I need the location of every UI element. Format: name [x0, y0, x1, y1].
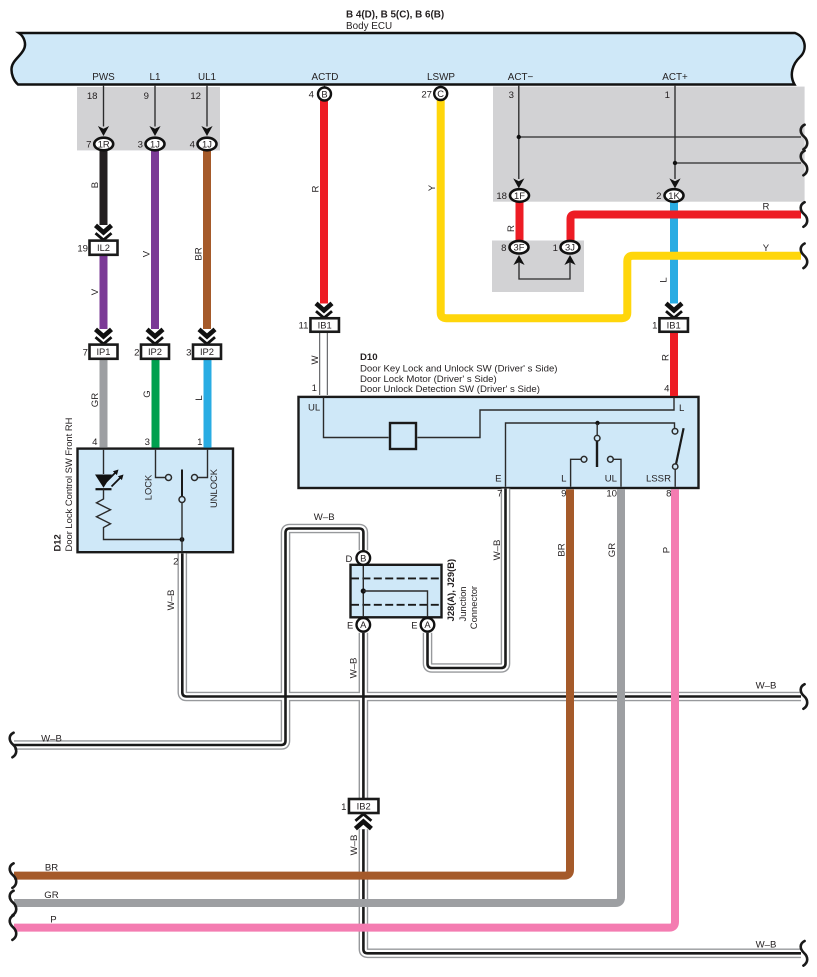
- svg-text:IP1: IP1: [96, 346, 110, 357]
- svg-text:W: W: [310, 355, 321, 365]
- svg-text:1: 1: [652, 321, 657, 332]
- svg-text:D10: D10: [360, 352, 378, 363]
- svg-text:1F: 1F: [514, 190, 525, 201]
- svg-text:9: 9: [561, 489, 566, 500]
- svg-text:1: 1: [312, 383, 317, 394]
- svg-text:GR: GR: [607, 543, 618, 557]
- svg-text:LOCK: LOCK: [143, 474, 154, 500]
- svg-text:1: 1: [197, 437, 202, 448]
- svg-text:3: 3: [145, 437, 150, 448]
- svg-text:2: 2: [656, 191, 661, 202]
- svg-text:2: 2: [134, 347, 139, 358]
- svg-text:Junction: Junction: [457, 586, 468, 621]
- svg-text:3F: 3F: [514, 242, 525, 253]
- svg-text:Door Unlock Detection SW (Driv: Door Unlock Detection SW (Driver' s Side…: [360, 384, 540, 395]
- svg-text:4: 4: [92, 437, 98, 448]
- svg-text:BR: BR: [45, 863, 58, 874]
- svg-text:Door Lock Control SW Front RH: Door Lock Control SW Front RH: [63, 418, 74, 552]
- svg-text:W–B: W–B: [41, 734, 62, 745]
- svg-text:BR: BR: [556, 543, 567, 556]
- svg-text:8: 8: [501, 243, 506, 254]
- svg-text:R: R: [506, 225, 517, 232]
- svg-text:4: 4: [309, 90, 315, 101]
- svg-text:1: 1: [553, 243, 558, 254]
- svg-text:P: P: [50, 915, 56, 926]
- svg-text:ACT+: ACT+: [662, 72, 688, 83]
- svg-text:ACTD: ACTD: [312, 72, 339, 83]
- svg-text:W–B: W–B: [756, 940, 777, 951]
- svg-text:3: 3: [186, 347, 191, 358]
- svg-text:UL: UL: [605, 474, 618, 485]
- svg-text:ACT−: ACT−: [508, 72, 534, 83]
- svg-text:Body ECU: Body ECU: [346, 21, 392, 32]
- svg-text:B: B: [321, 88, 327, 99]
- svg-text:B: B: [90, 182, 101, 188]
- svg-text:G: G: [142, 390, 153, 397]
- svg-text:9: 9: [144, 91, 149, 102]
- svg-text:IB2: IB2: [357, 800, 371, 811]
- svg-text:3J: 3J: [565, 242, 575, 253]
- svg-text:IB1: IB1: [667, 319, 681, 330]
- svg-text:11: 11: [299, 321, 309, 332]
- svg-text:3: 3: [509, 90, 514, 101]
- svg-text:D12: D12: [52, 534, 63, 551]
- svg-text:UNLOCK: UNLOCK: [208, 468, 219, 508]
- svg-text:L: L: [659, 277, 670, 283]
- svg-text:LSWP: LSWP: [427, 72, 455, 83]
- svg-text:L: L: [194, 395, 205, 401]
- svg-text:IP2: IP2: [200, 346, 214, 357]
- svg-text:W–B: W–B: [348, 658, 359, 679]
- svg-text:GR: GR: [90, 393, 101, 407]
- svg-text:1: 1: [665, 90, 670, 101]
- svg-text:A: A: [424, 619, 431, 630]
- svg-text:UL1: UL1: [198, 72, 217, 83]
- svg-text:W–B: W–B: [166, 590, 177, 611]
- svg-text:1: 1: [341, 802, 346, 813]
- svg-text:8: 8: [666, 489, 671, 500]
- svg-text:W–B: W–B: [756, 681, 777, 692]
- svg-text:LSSR: LSSR: [646, 474, 671, 485]
- svg-text:3: 3: [138, 140, 143, 151]
- svg-text:P: P: [661, 547, 672, 553]
- svg-text:7: 7: [86, 140, 91, 151]
- svg-text:Y: Y: [427, 184, 438, 191]
- svg-text:J28(A), J29(B): J28(A), J29(B): [445, 559, 456, 622]
- svg-text:IB1: IB1: [318, 319, 332, 330]
- svg-text:UL: UL: [308, 402, 321, 413]
- svg-text:18: 18: [87, 91, 98, 102]
- svg-text:4: 4: [190, 140, 196, 151]
- svg-text:27: 27: [421, 90, 432, 101]
- svg-text:E: E: [411, 620, 417, 631]
- svg-text:1K: 1K: [668, 190, 680, 201]
- svg-text:Y: Y: [763, 243, 770, 254]
- svg-text:C: C: [437, 88, 444, 99]
- svg-text:R: R: [660, 354, 671, 361]
- svg-text:2: 2: [173, 557, 178, 568]
- svg-text:R: R: [310, 185, 321, 192]
- svg-text:PWS: PWS: [92, 72, 115, 83]
- svg-text:L1: L1: [150, 72, 161, 83]
- svg-text:19: 19: [77, 243, 88, 254]
- svg-text:4: 4: [664, 384, 670, 395]
- svg-text:12: 12: [190, 91, 201, 102]
- svg-text:R: R: [763, 202, 770, 213]
- svg-text:GR: GR: [44, 890, 58, 901]
- svg-text:E: E: [495, 474, 501, 485]
- svg-text:L: L: [561, 474, 567, 485]
- svg-text:W–B: W–B: [314, 512, 335, 523]
- svg-text:BR: BR: [193, 247, 204, 260]
- svg-text:V: V: [141, 250, 152, 257]
- svg-text:A: A: [360, 619, 367, 630]
- svg-text:18: 18: [496, 191, 507, 202]
- svg-text:E: E: [347, 620, 353, 631]
- svg-text:7: 7: [83, 347, 88, 358]
- svg-text:V: V: [90, 288, 101, 295]
- svg-text:1J: 1J: [150, 138, 160, 149]
- svg-text:D: D: [346, 553, 353, 564]
- svg-text:10: 10: [606, 489, 617, 500]
- svg-text:Connector: Connector: [468, 586, 479, 629]
- svg-text:IL2: IL2: [97, 242, 110, 253]
- svg-text:W–B: W–B: [349, 835, 360, 856]
- svg-text:1J: 1J: [202, 138, 212, 149]
- svg-text:W–B: W–B: [492, 540, 503, 561]
- svg-text:L: L: [679, 403, 685, 414]
- svg-text:B 4(D), B 5(C), B 6(B): B 4(D), B 5(C), B 6(B): [346, 10, 444, 21]
- svg-text:B: B: [360, 552, 366, 563]
- svg-text:1R: 1R: [98, 138, 110, 149]
- svg-text:7: 7: [497, 489, 502, 500]
- svg-text:IP2: IP2: [148, 346, 162, 357]
